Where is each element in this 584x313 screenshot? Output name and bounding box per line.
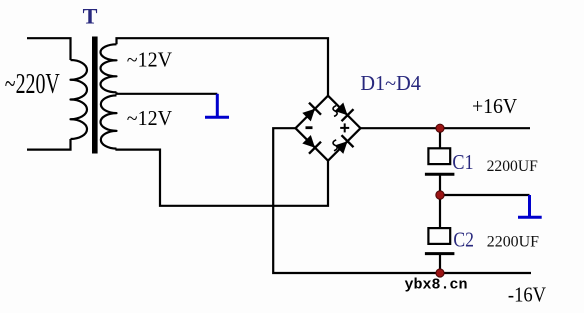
svg-text:~12V: ~12V [127, 106, 172, 130]
diode D2 top-right [335, 103, 354, 122]
svg-text:D1~D4: D1~D4 [360, 71, 421, 95]
diode D1 top-left [302, 103, 321, 122]
wire center tap [117, 92, 218, 94]
wire secondary top [117, 38, 329, 95]
winding secondary lower [101, 95, 117, 148]
svg-text:ybx8.cn: ybx8.cn [405, 277, 468, 294]
junction dot bottom rail [436, 269, 444, 277]
svg-text:2200UF: 2200UF [487, 158, 538, 175]
bridge minus sign [306, 126, 313, 129]
wire C2 top lead [439, 195, 441, 228]
svg-text:~220V: ~220V [5, 69, 60, 100]
bridge tilde lower [333, 140, 337, 151]
winding secondary upper [100, 44, 116, 92]
bridge tilde upper [333, 106, 337, 117]
svg-text:C1: C1 [452, 150, 473, 174]
capacitor C1 [425, 148, 455, 195]
bridge rectifier D1~D4 diamond [296, 96, 361, 161]
svg-text:C2: C2 [453, 227, 474, 251]
diode D4 bottom-right [335, 135, 354, 154]
winding primary of transformer T [71, 60, 88, 139]
svg-text:-16V: -16V [508, 282, 546, 306]
junction dot plus rail [436, 124, 444, 132]
svg-text:2200UF: 2200UF [487, 233, 539, 250]
wire primary bottom lead [27, 139, 71, 150]
ground output [518, 195, 542, 217]
transformer core T [92, 37, 98, 154]
wire secondary bottom to bridge [117, 149, 329, 206]
wire C1 top lead [439, 128, 441, 148]
ground center tap [205, 94, 229, 117]
diode D3 bottom-left [302, 135, 321, 154]
wire middle junction to ground [440, 194, 530, 196]
bridge plus sign [340, 123, 349, 132]
capacitor C2 [425, 228, 455, 273]
junction dot middle [436, 191, 444, 199]
svg-text:~12V: ~12V [127, 48, 172, 72]
svg-text:T: T [83, 3, 98, 28]
wire primary top lead [27, 38, 71, 60]
wire bridge minus loop to bottom rail [273, 128, 531, 273]
wire plus rail +16V [361, 127, 531, 129]
svg-text:+16V: +16V [472, 94, 517, 118]
